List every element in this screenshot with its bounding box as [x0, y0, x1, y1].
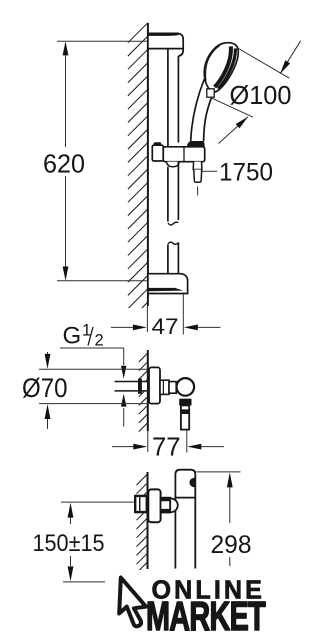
svg-text:150±15: 150±15 [33, 530, 105, 557]
wall (bottom section) [147, 472, 149, 569]
dim 77 left extension (wall) [147, 431, 149, 452]
mixer knob [177, 378, 195, 396]
outlet tube [181, 405, 189, 429]
dim 298 top extension line [195, 471, 240, 473]
stub wall connector (dark) [138, 379, 142, 394]
logo white backdrop [106, 570, 274, 640]
dim Ø100 upper arrow [280, 41, 301, 74]
dim Ø100 extension line (lower) [209, 97, 253, 117]
dim 77 arrows [112, 446, 134, 448]
clamp screw crescent (dark) [189, 478, 195, 487]
hand shower handle [191, 79, 205, 141]
hand shower head body [204, 43, 238, 92]
G1/2 leader vertical + arrows [123, 348, 125, 365]
shower rail upper segment [167, 49, 169, 147]
shower rail lower segment with break [167, 167, 169, 222]
hose nut below holder [193, 162, 202, 170]
dim Ø100 lower arrow [219, 117, 249, 144]
svg-text:Ø100: Ø100 [230, 80, 292, 110]
dim 150±15 arrows [68, 503, 74, 518]
outlet collar (black) [179, 399, 191, 406]
face notch [207, 89, 214, 97]
dim Ø70 line/arrows [47, 352, 49, 355]
ball joint dome [170, 498, 178, 512]
dim 150±15 top extension line [61, 501, 135, 503]
svg-text:G: G [63, 323, 82, 350]
label 1750 leader [202, 170, 217, 172]
spray face dark band outer strip [218, 48, 235, 88]
rail pipe body [174, 498, 176, 569]
svg-text:MARKET: MARKET [146, 593, 266, 639]
wall bracket (top) [148, 33, 183, 48]
svg-text:Ø70: Ø70 [22, 373, 68, 403]
dim 150±15 bottom extension line [63, 581, 105, 583]
mixer body nut [160, 380, 169, 394]
dim 298 line/arrows [227, 472, 233, 487]
handle cone in holder (dark) [187, 141, 205, 149]
rail break squiggle (lower cut) [168, 242, 179, 244]
rail break squiggle (upper cut) [168, 222, 179, 225]
svg-text:77: 77 [152, 432, 181, 462]
svg-text:298: 298 [211, 531, 252, 559]
svg-text:47: 47 [152, 314, 179, 339]
dimension line 620 [65, 43, 67, 147]
supply hex nut (in wall) [135, 496, 147, 512]
mixer flange [149, 367, 160, 403]
dim 47 right extension [182, 294, 184, 335]
dim 47 left extension (wall) [146, 306, 148, 332]
head cap joint line [206, 46, 220, 81]
spray face dark band inner strip [215, 46, 231, 87]
dim Ø70 upper extension line [39, 368, 149, 370]
glider clamp tab (black) [154, 142, 162, 145]
rail pipe head block [175, 470, 195, 498]
svg-text:2: 2 [95, 332, 104, 350]
union nut [161, 498, 171, 513]
dim Ø70 lower extension line [39, 403, 149, 405]
dim 77 right extension [186, 430, 188, 453]
dimension 620 bottom extension line [57, 280, 148, 282]
bracket-to-rail shoulder [178, 49, 183, 56]
mixer body cylinder [169, 382, 176, 394]
hose continuation tick [197, 187, 199, 196]
glider under-rail bump [167, 162, 180, 167]
svg-text:620: 620 [43, 149, 85, 179]
supply stub pipe [115, 382, 147, 390]
G1/2 leader underline [60, 347, 124, 349]
svg-text:1750: 1750 [219, 158, 273, 186]
wall (middle section) [147, 350, 149, 431]
mounting flange (bottom view) [148, 489, 160, 522]
glider knob [152, 145, 163, 161]
wall hatching (middle) [139, 353, 148, 432]
wall hatching (top) [128, 23, 148, 308]
dim 47 arrows [111, 326, 135, 328]
outlet tube nut band (black) [180, 409, 190, 414]
logo cursor icon [119, 578, 146, 627]
bracket wedge detail [148, 288, 183, 291]
wall hatching (bottom) [137, 474, 148, 573]
dim Ø100 extension line (upper) [237, 48, 289, 79]
wall bracket (bottom of rail) [148, 274, 188, 294]
wall (top section) [147, 23, 149, 306]
dimension 620 top extension line [57, 40, 148, 42]
hose end stub [194, 170, 202, 183]
glider holder body [163, 147, 205, 162]
